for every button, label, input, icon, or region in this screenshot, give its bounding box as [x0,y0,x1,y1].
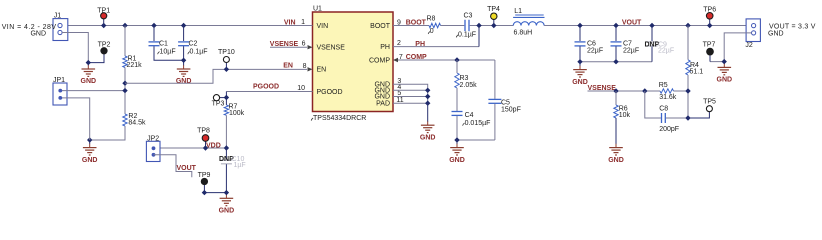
svg-text:22µF: 22µF [587,47,603,54]
svg-text:C5: C5 [501,99,510,106]
svg-text:TP2: TP2 [98,42,111,49]
svg-text:C8: C8 [659,105,668,112]
svg-text:R3: R3 [460,75,469,82]
svg-text:GND: GND [717,77,733,84]
svg-text:PGOOD: PGOOD [317,89,343,96]
svg-text:C7: C7 [623,40,632,47]
svg-text:U1: U1 [313,6,322,13]
svg-text:EN: EN [283,63,293,70]
svg-text:22µF: 22µF [658,48,674,55]
svg-text:VIN: VIN [284,19,296,26]
svg-text:TPS54334DRCR: TPS54334DRCR [313,115,366,122]
svg-text:VSENSE: VSENSE [270,41,299,48]
svg-text:0.1µF: 0.1µF [458,32,476,39]
svg-text:PAD: PAD [376,101,390,108]
svg-text:0.1µF: 0.1µF [190,48,208,55]
svg-text:JP1: JP1 [53,77,65,84]
svg-text:PGOOD: PGOOD [253,83,279,90]
svg-text:200pF: 200pF [659,126,679,133]
svg-text:TP7: TP7 [703,42,716,49]
svg-text:C3: C3 [464,13,473,20]
svg-text:COMP: COMP [369,57,390,64]
svg-text:VOUT = 3.3 V: VOUT = 3.3 V [769,24,816,31]
svg-text:221k: 221k [127,62,143,69]
svg-text:BOOT: BOOT [406,19,427,26]
svg-text:VDD: VDD [206,143,221,150]
svg-text:51.1: 51.1 [690,69,704,76]
svg-text:VSENSE: VSENSE [317,45,346,52]
svg-text:10µF: 10µF [160,48,176,55]
svg-text:GND: GND [81,78,97,85]
svg-text:2.05k: 2.05k [460,82,478,89]
svg-text:C2: C2 [189,41,198,48]
svg-text:31.6k: 31.6k [659,94,677,101]
svg-text:R8: R8 [427,15,436,22]
svg-text:TP10: TP10 [218,49,235,56]
svg-text:8: 8 [303,63,307,70]
svg-text:C4: C4 [465,112,474,119]
svg-text:22µF: 22µF [623,47,639,54]
svg-text:C1: C1 [159,41,168,48]
svg-text:L1: L1 [514,8,522,15]
svg-text:0.015µF: 0.015µF [465,120,491,127]
svg-text:TP6: TP6 [703,6,716,13]
svg-text:TP3: TP3 [212,101,225,108]
svg-text:R5: R5 [659,82,668,89]
svg-text:VIN: VIN [317,23,329,30]
svg-text:10: 10 [297,85,305,92]
svg-text:GND: GND [449,157,465,164]
svg-text:JP2: JP2 [147,135,159,142]
svg-text:GND: GND [572,79,588,86]
svg-text:GND: GND [608,157,624,164]
svg-text:J2: J2 [745,42,753,49]
svg-text:10k: 10k [619,112,631,119]
svg-text:GND: GND [30,31,46,38]
svg-text:GND: GND [219,208,235,215]
svg-text:TP4: TP4 [487,6,500,13]
svg-text:1: 1 [301,19,305,26]
svg-text:6.8uH: 6.8uH [514,29,533,36]
svg-text:GND: GND [768,31,784,38]
svg-text:C6: C6 [587,40,596,47]
svg-text:GND: GND [176,78,192,85]
svg-text:COMP: COMP [406,54,427,61]
svg-text:VIN = 4.2 - 28V: VIN = 4.2 - 28V [2,24,57,31]
svg-text:2: 2 [397,40,401,47]
svg-text:PH: PH [415,41,425,48]
svg-text:BOOT: BOOT [370,23,391,30]
svg-text:100k: 100k [229,110,245,117]
svg-text:VSENSE: VSENSE [588,85,617,92]
svg-text:GND: GND [82,157,98,164]
svg-text:TP1: TP1 [97,7,110,14]
svg-text:VOUT: VOUT [622,19,642,26]
svg-text:VOUT: VOUT [177,165,197,172]
svg-text:1µF: 1µF [234,162,246,169]
svg-text:EN: EN [317,67,327,74]
svg-text:PH: PH [380,44,390,51]
svg-text:84.5k: 84.5k [128,120,146,127]
svg-text:J1: J1 [54,13,62,20]
svg-text:TP9: TP9 [198,172,211,179]
svg-text:0: 0 [430,28,434,35]
svg-text:TP5: TP5 [703,99,716,106]
svg-text:6: 6 [302,41,306,48]
svg-text:GND: GND [420,134,436,141]
svg-text:150pF: 150pF [501,107,521,114]
svg-text:TP8: TP8 [197,128,210,135]
